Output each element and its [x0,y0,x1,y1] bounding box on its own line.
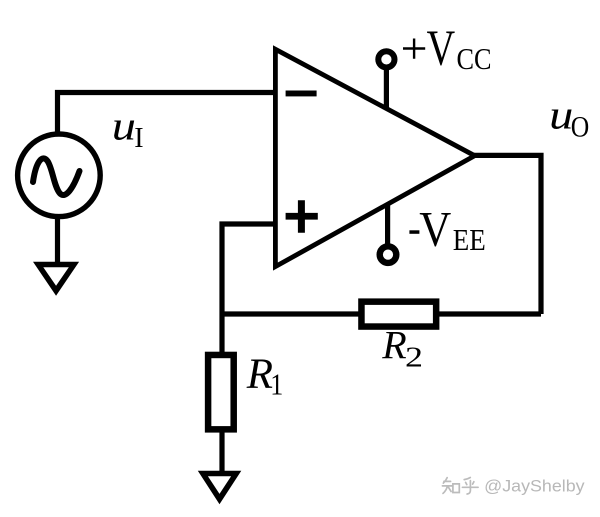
svg-text:O: O [571,111,590,144]
wire R1 to ground [219,429,224,472]
wire R2 to output [438,311,541,316]
op-amp non-inverting input marker [286,200,318,233]
wire -VEE terminal [385,204,390,247]
svg-text:V: V [427,21,456,77]
svg-text:R: R [246,351,273,398]
ground (below source) [33,262,79,296]
wire source to ground [55,216,60,263]
label +VCC plus sign [403,39,425,59]
svg-text:R: R [381,322,406,367]
wire +VCC terminal [384,64,389,108]
svg-text:2: 2 [405,342,423,373]
AC source sine symbol [33,158,80,195]
AC source V1 circle [18,134,101,217]
svg-text:EE: EE [453,222,486,257]
resistor R1 [208,355,234,429]
wire non-inverting input [222,224,276,356]
label -VEE minus sign [409,230,419,234]
wire op-amp output [474,155,541,314]
svg-text:u: u [112,103,136,149]
wire source to inverting input [58,93,277,135]
svg-text:V: V [419,200,451,256]
resistor R2 [361,302,436,327]
wire feedback node to R2 [220,311,361,316]
op-amp inverting input marker [286,91,317,97]
watermark zhihu glyph hu [462,478,478,495]
svg-text:CC: CC [457,41,492,76]
svg-text:1: 1 [270,367,283,402]
svg-text:u: u [549,92,573,138]
svg-text:@JayShelby: @JayShelby [484,476,585,495]
+VCC terminal circle [378,51,394,67]
op-amp U1 [275,49,474,266]
svg-text:I: I [134,123,143,154]
watermark zhihu glyph zhi [442,478,459,494]
-VEE terminal circle [380,246,397,263]
ground (below R1) [198,471,242,504]
